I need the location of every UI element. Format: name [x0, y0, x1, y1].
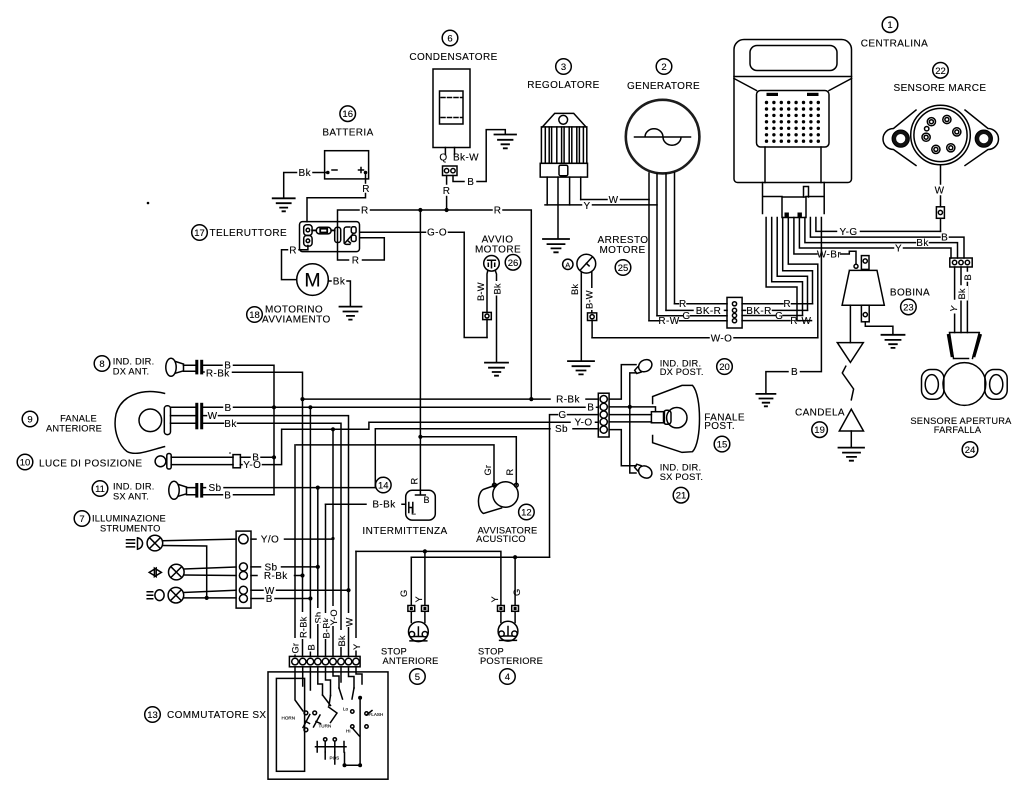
svg-text:B-W: B-W: [476, 282, 486, 301]
svg-text:B-Bk: B-Bk: [372, 500, 396, 511]
svg-text:Y-O: Y-O: [329, 609, 339, 625]
svg-text:INTERMITTENZA: INTERMITTENZA: [362, 526, 447, 537]
svg-text:Y: Y: [352, 644, 362, 650]
svg-text:STOP: STOP: [478, 647, 504, 657]
svg-text:5: 5: [415, 672, 420, 683]
svg-text:B: B: [791, 367, 798, 378]
svg-text:FLASH: FLASH: [369, 712, 384, 717]
svg-text:Y-G: Y-G: [839, 227, 857, 238]
svg-text:7: 7: [79, 514, 84, 525]
svg-text:G: G: [682, 311, 690, 322]
svg-text:BOBINA: BOBINA: [890, 288, 930, 299]
svg-text:HORN: HORN: [282, 716, 296, 721]
svg-text:M: M: [304, 270, 320, 292]
svg-text:R: R: [443, 186, 451, 197]
svg-text:23: 23: [903, 302, 914, 313]
svg-text:W-Br: W-Br: [817, 250, 841, 261]
svg-text:REGOLATORE: REGOLATORE: [527, 80, 600, 91]
svg-text:R: R: [352, 256, 360, 267]
svg-text:DX POST.: DX POST.: [660, 367, 704, 377]
svg-text:A: A: [565, 260, 570, 269]
svg-text:STOP: STOP: [381, 647, 407, 657]
svg-text:SX ANT.: SX ANT.: [113, 492, 149, 502]
svg-text:10: 10: [20, 458, 31, 469]
svg-text:Y: Y: [414, 596, 424, 602]
svg-text:B-W: B-W: [584, 290, 594, 309]
svg-text:ANTERIORE: ANTERIORE: [46, 424, 102, 434]
svg-text:B: B: [963, 274, 973, 280]
svg-text:W-O: W-O: [711, 333, 733, 344]
svg-text:11: 11: [95, 484, 105, 495]
svg-text:8: 8: [99, 359, 104, 370]
svg-text:Bk: Bk: [337, 635, 347, 646]
svg-text:POS: POS: [330, 756, 340, 761]
svg-text:26: 26: [508, 258, 519, 269]
svg-text:3: 3: [561, 62, 566, 73]
svg-text:R: R: [783, 299, 791, 310]
svg-text:Lo: Lo: [343, 707, 349, 712]
svg-text:IND. DIR.: IND. DIR.: [113, 357, 155, 367]
svg-text:W: W: [609, 195, 619, 206]
svg-text:Bk: Bk: [493, 283, 503, 294]
svg-text:Hi: Hi: [346, 729, 350, 734]
svg-text:Sb: Sb: [555, 424, 568, 435]
svg-text:B: B: [224, 490, 231, 501]
svg-text:Bk: Bk: [224, 419, 237, 430]
svg-text:TELERUTTORE: TELERUTTORE: [210, 228, 288, 239]
svg-text:G-O: G-O: [427, 228, 447, 239]
svg-text:2: 2: [661, 62, 666, 73]
svg-text:25: 25: [618, 263, 629, 274]
svg-text:Y: Y: [583, 201, 590, 212]
svg-text:R: R: [409, 478, 419, 485]
svg-text:R: R: [494, 206, 502, 217]
svg-text:Y-O: Y-O: [243, 460, 261, 471]
svg-text:TURN: TURN: [319, 724, 332, 729]
svg-text:15: 15: [717, 440, 728, 451]
svg-text:Q: Q: [439, 153, 447, 164]
svg-text:R: R: [361, 206, 369, 217]
svg-text:20: 20: [719, 362, 730, 373]
svg-text:R-Bk: R-Bk: [206, 369, 230, 380]
svg-text:Y: Y: [895, 244, 902, 255]
svg-text:CONDENSATORE: CONDENSATORE: [409, 52, 497, 63]
svg-text:Y: Y: [490, 596, 500, 602]
svg-text:IND. DIR.: IND. DIR.: [660, 462, 702, 472]
svg-text:Bk: Bk: [333, 277, 346, 288]
svg-text:1: 1: [887, 20, 892, 31]
svg-text:12: 12: [521, 508, 532, 519]
svg-text:FARFALLA: FARFALLA: [934, 425, 982, 435]
svg-text:GENERATORE: GENERATORE: [627, 81, 700, 92]
svg-text:Sb: Sb: [208, 483, 221, 494]
svg-text:B: B: [467, 177, 474, 188]
svg-text:B: B: [587, 403, 594, 414]
svg-text:COMMUTATORE SX: COMMUTATORE SX: [167, 710, 267, 721]
svg-text:Gr: Gr: [483, 465, 493, 476]
svg-text:19: 19: [814, 425, 825, 436]
svg-text:13: 13: [147, 710, 158, 721]
svg-text:R: R: [505, 469, 515, 476]
svg-text:CENTRALINA: CENTRALINA: [861, 39, 928, 50]
svg-text:22: 22: [935, 66, 946, 77]
svg-text:R-Bk: R-Bk: [264, 571, 288, 582]
svg-text:G: G: [558, 410, 566, 421]
svg-text:Gr: Gr: [291, 643, 301, 654]
svg-text:R: R: [289, 246, 297, 257]
svg-text:BATTERIA: BATTERIA: [322, 128, 373, 139]
svg-text:21: 21: [676, 491, 687, 502]
svg-text:Y-O: Y-O: [574, 418, 592, 429]
svg-text:W: W: [208, 411, 218, 422]
svg-text:ANTERIORE: ANTERIORE: [382, 656, 438, 666]
svg-text:24: 24: [965, 445, 976, 456]
svg-text:SX POST.: SX POST.: [660, 472, 703, 482]
svg-text:G: G: [399, 590, 409, 597]
svg-text:Bk: Bk: [916, 238, 929, 249]
svg-text:W: W: [344, 618, 354, 627]
svg-text:R-Bk: R-Bk: [299, 616, 309, 638]
svg-text:B: B: [266, 594, 273, 605]
svg-text:R-W: R-W: [790, 316, 811, 327]
svg-text:R-Bk: R-Bk: [556, 395, 580, 406]
svg-text:G: G: [512, 589, 522, 596]
svg-text:AVVIAMENTO: AVVIAMENTO: [262, 315, 331, 326]
svg-text:MOTORE: MOTORE: [599, 245, 645, 256]
svg-text:Bk: Bk: [570, 284, 580, 295]
svg-text:POST.: POST.: [704, 421, 735, 432]
svg-text:B: B: [224, 403, 231, 414]
svg-text:G: G: [775, 311, 783, 322]
svg-text:R: R: [362, 184, 370, 195]
svg-text:SENSORE MARCE: SENSORE MARCE: [894, 83, 987, 94]
svg-text:STRUMENTO: STRUMENTO: [100, 524, 161, 534]
svg-text:POSTERIORE: POSTERIORE: [480, 656, 543, 666]
svg-text:Bk: Bk: [957, 288, 967, 299]
svg-text:Y/O: Y/O: [261, 535, 279, 546]
svg-text:18: 18: [249, 310, 260, 321]
svg-text:BK-R: BK-R: [746, 306, 772, 317]
svg-text:17: 17: [194, 228, 205, 239]
svg-text:LUCE DI POSIZIONE: LUCE DI POSIZIONE: [39, 459, 143, 470]
svg-text:CANDELA: CANDELA: [795, 407, 845, 418]
svg-text:Bk-W: Bk-W: [453, 153, 479, 164]
svg-text:B: B: [941, 233, 948, 244]
svg-text:ACUSTICO: ACUSTICO: [476, 534, 526, 544]
svg-text:R-W: R-W: [658, 316, 679, 327]
svg-text:ILLUMINAZIONE: ILLUMINAZIONE: [92, 514, 166, 524]
svg-text:FANALE: FANALE: [60, 414, 97, 424]
svg-text:B: B: [423, 495, 429, 505]
svg-text:6: 6: [447, 34, 452, 45]
svg-text:4: 4: [505, 672, 510, 683]
svg-text:R: R: [679, 299, 687, 310]
svg-text:W: W: [935, 186, 945, 197]
svg-text:B: B: [306, 644, 316, 650]
svg-text:IND. DIR.: IND. DIR.: [113, 482, 155, 492]
svg-text:14: 14: [378, 481, 389, 492]
svg-text:16: 16: [342, 109, 353, 120]
svg-text:9: 9: [27, 415, 32, 426]
svg-text:Bk: Bk: [299, 168, 312, 179]
svg-text:DX ANT.: DX ANT.: [113, 367, 150, 377]
svg-text:BK-R: BK-R: [696, 306, 722, 317]
